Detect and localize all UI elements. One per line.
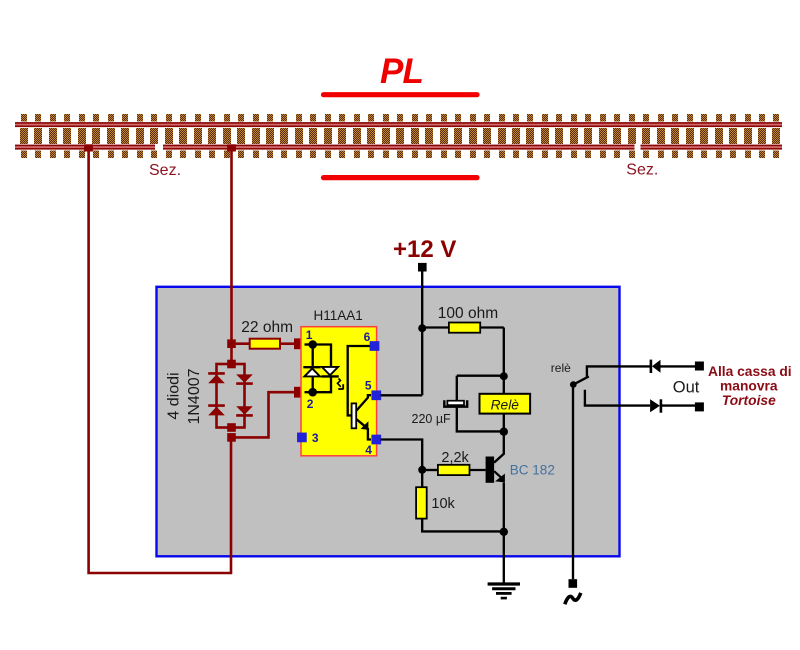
svg-text:3: 3 — [312, 431, 319, 445]
svg-text:220 µF: 220 µF — [412, 412, 452, 426]
svg-text:H11AA1: H11AA1 — [314, 308, 363, 323]
svg-text:Tortoise: Tortoise — [722, 393, 776, 408]
svg-text:2,2k: 2,2k — [441, 450, 469, 466]
svg-text:6: 6 — [364, 330, 371, 344]
svg-text:Sez.: Sez. — [626, 162, 658, 179]
svg-text:relè: relè — [551, 361, 571, 375]
svg-text:manovra: manovra — [720, 379, 778, 394]
svg-text:Out: Out — [673, 378, 700, 396]
svg-text:5: 5 — [365, 378, 372, 392]
svg-text:+12 V: +12 V — [393, 236, 456, 263]
svg-text:22 ohm: 22 ohm — [241, 319, 293, 336]
svg-text:BC 182: BC 182 — [510, 463, 555, 478]
svg-text:4 diodi: 4 diodi — [165, 372, 182, 419]
svg-text:100 ohm: 100 ohm — [438, 305, 498, 322]
svg-text:Relè: Relè — [491, 397, 520, 412]
svg-text:10k: 10k — [431, 496, 455, 512]
svg-text:1N4007: 1N4007 — [186, 368, 203, 424]
svg-text:PL: PL — [380, 52, 423, 91]
svg-text:4: 4 — [365, 443, 372, 457]
svg-text:Alla cassa di: Alla cassa di — [708, 364, 792, 379]
svg-text:1: 1 — [306, 328, 313, 342]
svg-text:Sez.: Sez. — [149, 162, 181, 179]
svg-text:2: 2 — [307, 397, 314, 411]
